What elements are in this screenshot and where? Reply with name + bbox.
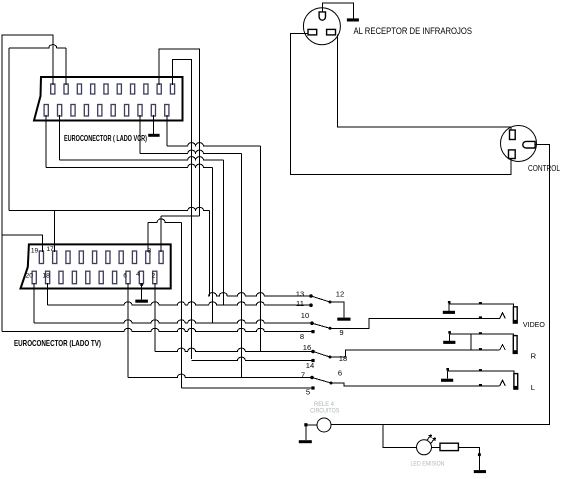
svg-text:9: 9 xyxy=(339,328,343,337)
svg-text:18: 18 xyxy=(42,273,50,280)
svg-text:11: 11 xyxy=(296,299,304,308)
svg-text:7: 7 xyxy=(301,370,305,379)
svg-text:RELE 4: RELE 4 xyxy=(314,402,335,408)
svg-text:L: L xyxy=(531,383,535,392)
svg-text:16: 16 xyxy=(303,343,311,352)
svg-text:12: 12 xyxy=(336,289,344,298)
svg-text:LED EMISION: LED EMISION xyxy=(411,461,445,467)
svg-text:R: R xyxy=(531,351,537,360)
svg-text:17: 17 xyxy=(46,246,54,253)
svg-text:CONTROL: CONTROL xyxy=(528,164,560,173)
svg-text:19: 19 xyxy=(31,248,39,255)
svg-text:8: 8 xyxy=(300,332,304,341)
svg-text:VIDEO: VIDEO xyxy=(523,320,545,329)
svg-text:5: 5 xyxy=(306,387,310,396)
svg-text:13: 13 xyxy=(296,289,304,298)
svg-text:10: 10 xyxy=(301,311,309,320)
svg-text:2: 2 xyxy=(151,273,155,280)
svg-text:18: 18 xyxy=(339,354,347,363)
svg-text:CIRCUITOS: CIRCUITOS xyxy=(310,408,339,414)
svg-text:EUROCONECTOR (LADO TV): EUROCONECTOR (LADO TV) xyxy=(14,338,101,348)
svg-text:AL RECEPTOR DE INFRAROJOS: AL RECEPTOR DE INFRAROJOS xyxy=(354,26,473,36)
svg-text:EUROCONECTOR ( LADO VCR): EUROCONECTOR ( LADO VCR) xyxy=(64,134,147,143)
svg-text:20: 20 xyxy=(26,273,34,280)
svg-text:6: 6 xyxy=(338,369,342,378)
svg-text:6: 6 xyxy=(123,273,127,280)
svg-text:4: 4 xyxy=(136,271,140,278)
svg-text:3: 3 xyxy=(147,248,151,255)
svg-text:14: 14 xyxy=(306,361,314,370)
